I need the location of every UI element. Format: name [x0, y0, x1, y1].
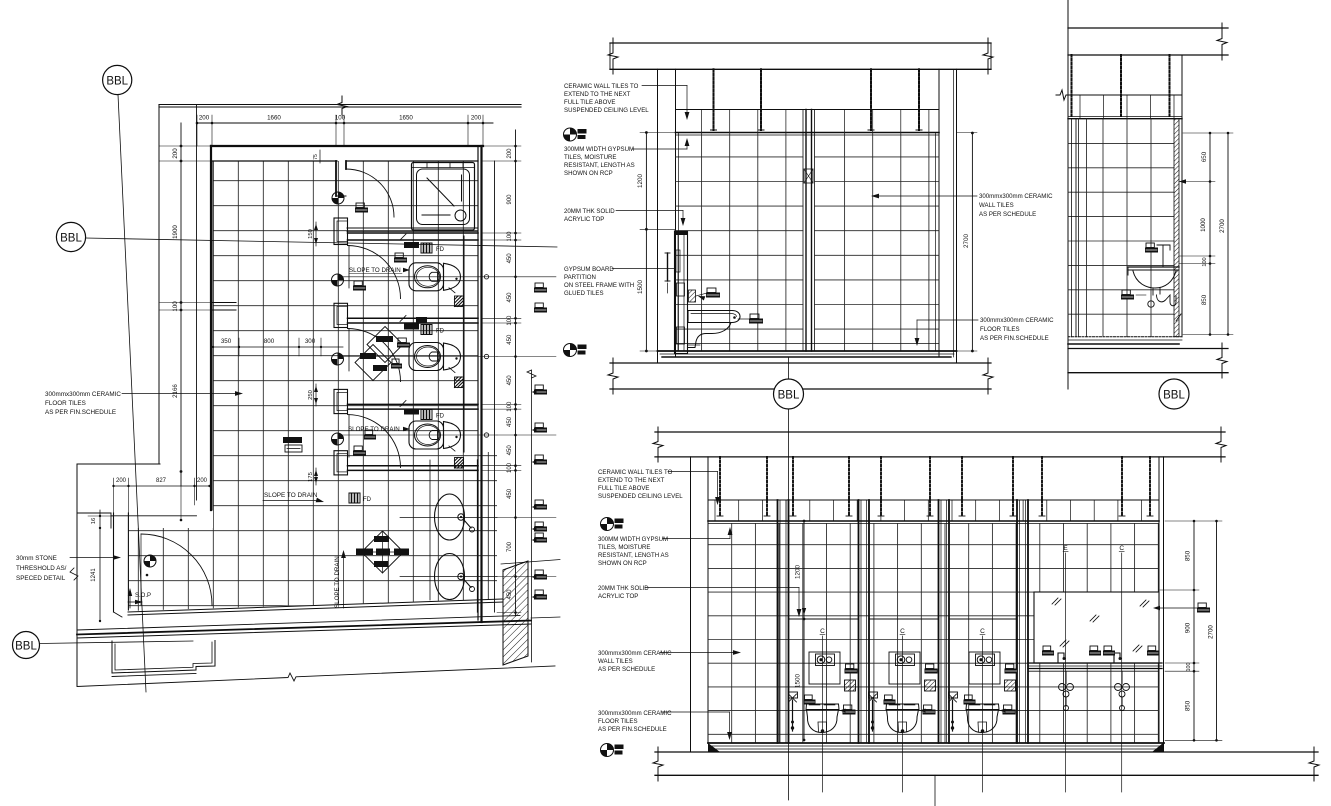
svg-text:450: 450: [507, 292, 513, 303]
cistern flush panel: [969, 652, 1000, 684]
svg-text:20MM THK SOLID: 20MM THK SOLID: [598, 585, 649, 592]
BBL3 leader line: [40, 641, 194, 644]
svg-text:TILES, MOISTURE: TILES, MOISTURE: [564, 154, 616, 161]
wall tag A: [707, 288, 716, 293]
FFL WAL symbol A1: [564, 128, 577, 141]
svg-text:200: 200: [116, 478, 127, 484]
svg-text:20MM THK SOLID: 20MM THK SOLID: [564, 208, 615, 215]
svg-text:FD: FD: [436, 414, 445, 420]
plan north wall: [211, 145, 483, 147]
svg-text:300MM WIDTH GYPSUM: 300MM WIDTH GYPSUM: [598, 536, 668, 543]
svg-text:AS PER FIN.SCHEDULE: AS PER FIN.SCHEDULE: [45, 409, 116, 416]
plan inner dimension 350/800/300: [213, 346, 343, 348]
svg-text:2166: 2166: [172, 384, 179, 398]
toilet centerline: [338, 356, 497, 358]
svg-text:1000: 1000: [1200, 218, 1207, 232]
elevation B bottom slab: [1068, 348, 1228, 350]
elevation A hanger rods: [713, 69, 715, 130]
svg-text:300mmx300mm CERAMIC: 300mmx300mm CERAMIC: [45, 391, 121, 398]
svg-text:BBL: BBL: [1163, 390, 1185, 402]
svg-text:SUSPENDED CEILING LEVEL: SUSPENDED CEILING LEVEL: [564, 107, 649, 114]
svg-text:250: 250: [308, 390, 314, 400]
svg-text:ON STEEL FRAME WITH: ON STEEL FRAME WITH: [564, 282, 634, 289]
stall centerlines: [822, 636, 824, 792]
svg-text:FULL TILE ABOVE: FULL TILE ABOVE: [564, 99, 615, 106]
svg-text:100: 100: [507, 401, 513, 412]
svg-text:AS PER FIN.SCHEDULE: AS PER FIN.SCHEDULE: [980, 335, 1049, 342]
hatch block on wall: [689, 290, 696, 302]
elevation C suspended ceiling: [708, 499, 1159, 501]
svg-text:ACRYLIC TOP: ACRYLIC TOP: [564, 216, 604, 223]
svg-text:THRESHOLD AS/: THRESHOLD AS/: [16, 565, 67, 572]
elevation B left boundary: [1067, 0, 1069, 389]
BBL bubble 1: [103, 65, 132, 94]
plan left dimension chain: [180, 123, 182, 486]
svg-text:175: 175: [308, 472, 314, 482]
flush tag A: [750, 314, 759, 319]
svg-text:C: C: [900, 628, 905, 635]
stall1 tags: [395, 253, 403, 258]
svg-text:450: 450: [507, 375, 513, 386]
svg-text:300mmx300mm CERAMIC: 300mmx300mm CERAMIC: [980, 317, 1054, 324]
counter top: [1028, 662, 1162, 664]
elevation B wash basin side: [1128, 266, 1179, 268]
svg-text:SHOWN ON RCP: SHOWN ON RCP: [598, 560, 647, 567]
svg-text:FLOOR TILES: FLOOR TILES: [980, 326, 1020, 333]
stall floor drain FD: [421, 325, 432, 335]
elevation A right dim 2700: [971, 133, 973, 352]
diamond finish tags (main room): [362, 531, 404, 573]
stall3 tags: [365, 430, 373, 435]
plan west outer boundary vertical: [76, 464, 78, 686]
svg-text:350: 350: [221, 338, 232, 345]
svg-text:1500: 1500: [637, 280, 644, 295]
main floor drain: [349, 493, 360, 503]
svg-text:FULL TILE ABOVE: FULL TILE ABOVE: [598, 485, 649, 492]
dim 75 shower door: [319, 150, 321, 163]
plan south outer wall: [77, 621, 531, 635]
svg-text:2700: 2700: [963, 234, 970, 249]
svg-text:1900: 1900: [172, 225, 179, 239]
svg-text:BBL: BBL: [778, 390, 800, 402]
svg-text:150: 150: [308, 229, 314, 239]
taps on counter: [1058, 653, 1064, 663]
stall accessories: [846, 664, 854, 669]
svg-text:100: 100: [507, 462, 513, 473]
BBL bubble 2: [56, 222, 85, 251]
grab bar side: [667, 253, 669, 281]
FFL WAL symbol C2: [601, 744, 614, 757]
svg-text:GYPSUM BOARD: GYPSUM BOARD: [564, 266, 614, 273]
plan left extension line: [196, 105, 198, 500]
svg-text:BBL: BBL: [60, 233, 82, 245]
elevation B floor: [1068, 336, 1182, 338]
svg-text:100: 100: [1186, 663, 1192, 672]
svg-text:EXTEND TO THE NEXT: EXTEND TO THE NEXT: [598, 477, 665, 484]
stall ceiling symbol: [332, 274, 344, 286]
stall partition 2: [348, 317, 479, 319]
svg-text:1650: 1650: [399, 115, 413, 122]
diamond finish tags (stall 2): [367, 327, 403, 363]
svg-text:1200: 1200: [795, 565, 802, 580]
stall door arc: [348, 415, 401, 468]
svg-text:ACRYLIC TOP: ACRYLIC TOP: [598, 593, 638, 600]
svg-text:RESISTANT, LENGTH AS: RESISTANT, LENGTH AS: [598, 552, 669, 559]
cistern flush panel: [809, 652, 840, 684]
toilet side view (elevation A): [688, 311, 740, 323]
elevation C floor: [708, 742, 1164, 744]
wall hung toilet front: [806, 704, 839, 710]
entry door arc: [141, 534, 212, 605]
plan west step boundary: [77, 463, 160, 465]
svg-text:CERAMIC WALL TILES TO: CERAMIC WALL TILES TO: [564, 83, 639, 90]
BBL1 leader line: [118, 95, 146, 693]
BBL bubble elevation A: [774, 379, 804, 409]
shower room south wall: [347, 227, 478, 229]
mirror tag right: [1198, 603, 1206, 608]
svg-text:FLOOR TILES: FLOOR TILES: [45, 400, 86, 407]
svg-text:FD: FD: [363, 497, 372, 503]
basin centerlines: [1065, 553, 1067, 792]
elevation C hanger rods: [719, 457, 721, 516]
plan west step h: [77, 512, 111, 514]
cistern flush panel: [889, 652, 920, 684]
elevation B tile grid: [1068, 119, 1174, 337]
svg-text:450: 450: [507, 416, 513, 427]
dim 175: [315, 468, 317, 485]
svg-text:FD: FD: [436, 247, 445, 253]
elevation A tile grid: [676, 133, 940, 352]
toilet (plan): [409, 263, 444, 291]
svg-text:WALL TILES: WALL TILES: [598, 658, 633, 665]
svg-text:850: 850: [1185, 700, 1192, 711]
hatch block: [455, 377, 464, 388]
svg-text:850: 850: [1201, 294, 1208, 305]
BBL bubble elevation B: [1159, 379, 1189, 409]
svg-text:300mmx300mm CERAMIC: 300mmx300mm CERAMIC: [979, 193, 1053, 200]
svg-text:EXTEND TO THE NEXT: EXTEND TO THE NEXT: [564, 91, 631, 98]
svg-text:SLOPE TO DRAIN: SLOPE TO DRAIN: [334, 556, 341, 608]
finish tag leader line: [527, 370, 536, 378]
shower room west partition + door: [335, 161, 337, 196]
entry ceiling symbol: [144, 555, 156, 567]
elevation C side walls: [690, 457, 692, 752]
entry top edge: [111, 515, 197, 517]
toilet (plan): [409, 421, 444, 449]
bottle traps under counter: [1065, 671, 1067, 684]
dim 16: [99, 510, 101, 528]
wash counter edge: [477, 460, 479, 612]
elevation A gypsum/cistern wall section: [675, 231, 688, 354]
svg-text:AS PER SCHEDULE: AS PER SCHEDULE: [979, 211, 1036, 218]
elevation A suspended ceiling: [676, 109, 940, 111]
svg-text:200: 200: [199, 115, 210, 122]
dim 1241: [99, 528, 101, 621]
stall accessories: [926, 664, 934, 669]
svg-text:450: 450: [507, 334, 513, 345]
elevation B hanger rods: [1071, 55, 1073, 116]
svg-text:700: 700: [507, 541, 513, 552]
floor tile edge A: [676, 343, 940, 345]
svg-text:SLOPE TO DRAIN: SLOPE TO DRAIN: [349, 267, 401, 274]
svg-text:16: 16: [91, 518, 97, 524]
bottom step outline: [112, 641, 215, 674]
elevation B dims: [1209, 133, 1211, 335]
elevation C bottom slab: [655, 751, 1318, 753]
elevation A dim 1500: [645, 229, 647, 351]
plan top boundary double line: [159, 104, 521, 106]
shower tray: [412, 163, 475, 231]
svg-text:FD: FD: [436, 329, 445, 335]
wash basin (plan): [435, 494, 465, 540]
svg-text:850: 850: [1185, 550, 1192, 561]
cubicle door top line: [789, 618, 859, 620]
elevation B top slab: [1068, 27, 1228, 29]
svg-text:1241: 1241: [91, 568, 97, 582]
svg-text:200: 200: [471, 115, 482, 122]
basin tap B: [1162, 245, 1164, 267]
svg-text:BBL: BBL: [15, 641, 37, 653]
svg-text:C: C: [820, 628, 825, 635]
stall door arc: [348, 246, 401, 299]
basin centerlines: [400, 517, 497, 519]
svg-text:300mmx300mm CERAMIC: 300mmx300mm CERAMIC: [598, 710, 672, 717]
svg-text:450: 450: [507, 488, 513, 499]
elevation C top slab: [655, 431, 1225, 433]
svg-text:900: 900: [1185, 622, 1192, 633]
BBL2 leader line: [86, 238, 558, 247]
extension line below slab: [934, 775, 936, 806]
hatch block: [455, 458, 464, 469]
svg-text:100: 100: [507, 315, 513, 326]
elevation C right dims: [1193, 521, 1195, 740]
finish tag column: [535, 283, 543, 288]
mirror panels: [1034, 592, 1159, 663]
svg-text:827: 827: [156, 478, 167, 484]
svg-text:SPECED DETAIL: SPECED DETAIL: [16, 575, 66, 582]
svg-text:2700: 2700: [1208, 625, 1215, 639]
svg-text:1200: 1200: [637, 174, 644, 189]
stall ceiling symbol: [332, 433, 344, 445]
svg-text:C: C: [980, 628, 985, 635]
svg-text:450: 450: [507, 253, 513, 264]
svg-text:C: C: [1119, 545, 1124, 552]
wash basin (plan): [435, 554, 465, 600]
svg-text:WALL TILES: WALL TILES: [979, 202, 1014, 209]
svg-text:200: 200: [507, 148, 513, 159]
elevation B wall tile section (hatched strip): [1174, 119, 1179, 337]
partition detail box: [804, 169, 813, 183]
shower ceiling symbol: [332, 192, 344, 204]
toilet centerline: [338, 276, 497, 278]
svg-text:S.O.P: S.O.P: [135, 593, 151, 599]
svg-text:SHOWN ON RCP: SHOWN ON RCP: [564, 170, 613, 177]
BBL A centerline down through elevation C: [788, 409, 790, 800]
elevation A wall tile top: [676, 132, 940, 134]
svg-text:1500: 1500: [795, 674, 802, 689]
elevation A bottom slab: [610, 362, 991, 364]
svg-text:PARTITION: PARTITION: [564, 274, 596, 281]
svg-text:100: 100: [1202, 257, 1208, 266]
svg-text:BBL: BBL: [106, 76, 128, 88]
toilet (plan): [409, 343, 444, 371]
threshold walls: [113, 513, 115, 612]
plan top dimension chain: [197, 122, 493, 124]
stall floor drain FD: [421, 410, 432, 420]
dim 200/827/200 entry: [114, 485, 210, 487]
svg-text:300: 300: [305, 338, 316, 345]
svg-text:GLUED TILES: GLUED TILES: [564, 290, 604, 297]
svg-text:SLOPE TO DRAIN: SLOPE TO DRAIN: [348, 426, 400, 433]
elevation C wall tile top: [708, 520, 1159, 522]
plan lowest boundary: [77, 666, 555, 687]
hatch block: [455, 296, 464, 307]
svg-text:SUSPENDED CEILING LEVEL: SUSPENDED CEILING LEVEL: [598, 493, 683, 500]
svg-text:300MM WIDTH GYPSUM: 300MM WIDTH GYPSUM: [564, 146, 634, 153]
plan south wall band: [128, 599, 502, 612]
plan west wall: [210, 146, 212, 510]
svg-text:TILES, MOISTURE: TILES, MOISTURE: [598, 544, 650, 551]
toilet centerline: [338, 434, 497, 436]
stall accessories: [1006, 664, 1014, 669]
stall floor drain FD: [421, 243, 432, 253]
elevation A central partition: [802, 110, 804, 352]
svg-text:SLOPE TO DRAIN: SLOPE TO DRAIN: [264, 492, 318, 499]
elevation B suspended ceiling: [1068, 94, 1182, 96]
svg-text:AS PER FIN.SCHEDULE: AS PER FIN.SCHEDULE: [598, 726, 667, 733]
dim 150: [315, 222, 317, 246]
plan right dimension chain: [515, 130, 517, 616]
elevation A dim 1200: [645, 133, 647, 230]
dim 250: [315, 384, 317, 406]
elevation A top slab: [610, 42, 991, 44]
wall hung toilet front: [886, 704, 919, 710]
FFL WAL symbol A2: [564, 344, 577, 357]
svg-text:1660: 1660: [267, 115, 281, 122]
svg-text:800: 800: [264, 338, 275, 345]
svg-text:2700: 2700: [1219, 219, 1226, 233]
elevation C dim 1200/1500: [803, 521, 805, 740]
tag above FD2: [416, 317, 427, 323]
elevation A side walls: [657, 69, 659, 363]
svg-text:900: 900: [507, 194, 513, 205]
svg-text:450: 450: [507, 445, 513, 456]
plan east wall: [477, 146, 479, 620]
stall partition 4: [348, 465, 479, 467]
stall partition 1: [348, 232, 479, 234]
stall ceiling symbol: [332, 353, 344, 365]
svg-text:CERAMIC WALL TILES TO: CERAMIC WALL TILES TO: [598, 469, 673, 476]
svg-text:E: E: [1063, 545, 1068, 552]
elevation A floor: [658, 350, 957, 352]
svg-text:200: 200: [197, 478, 208, 484]
elevation C stall partitions: [777, 500, 779, 743]
svg-text:200: 200: [172, 148, 179, 159]
svg-text:75: 75: [313, 154, 319, 160]
FFL WAL symbol C1: [601, 518, 614, 531]
plan left boundary line: [158, 105, 160, 465]
hatched column: [503, 561, 528, 665]
svg-text:AS PER SCHEDULE: AS PER SCHEDULE: [598, 666, 655, 673]
plan west wall jog 100: [211, 302, 236, 304]
svg-text:FLOOR TILES: FLOOR TILES: [598, 718, 638, 725]
stall partition 3: [348, 403, 479, 405]
stall door arc: [348, 329, 401, 382]
elevation A ceiling band joints: [701, 110, 703, 133]
svg-text:30mm STONE: 30mm STONE: [16, 555, 57, 562]
finish tag (main room west): [283, 437, 302, 443]
svg-text:300mmx300mm CERAMIC: 300mmx300mm CERAMIC: [598, 650, 672, 657]
svg-text:650: 650: [1201, 151, 1208, 162]
svg-text:100: 100: [335, 115, 346, 122]
svg-text:RESISTANT, LENGTH AS: RESISTANT, LENGTH AS: [564, 162, 635, 169]
wall hung toilet front: [966, 704, 999, 710]
BBL bubble 3: [13, 632, 40, 659]
